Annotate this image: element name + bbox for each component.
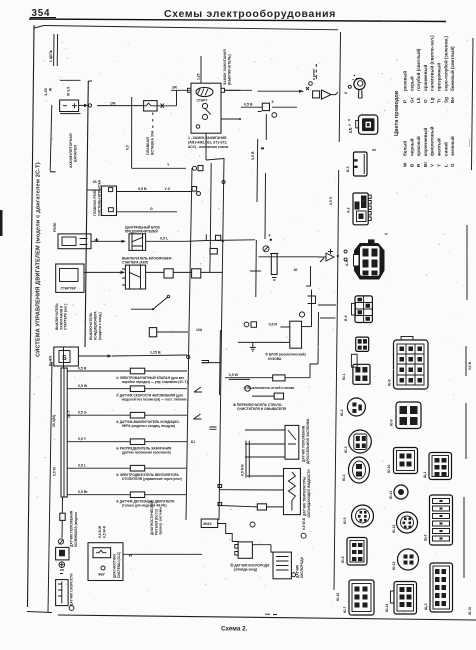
fuse drop vertical <box>131 97 133 168</box>
svg-text:⑧ Выключатель огней стоянки: ⑧ Выключатель огней стоянки <box>244 386 295 390</box>
wire K2 extension <box>187 240 207 243</box>
small bracket component on stub <box>308 296 316 304</box>
svg-text:Ю-13: Ю-13 <box>392 561 396 570</box>
wire switch out right <box>225 89 253 91</box>
svg-text:ВСТАВКА 30А: ВСТАВКА 30А <box>151 130 155 155</box>
ignition contact 1 <box>202 103 207 108</box>
connector R2 pin dots <box>440 500 443 540</box>
svg-text:6: 6 <box>269 234 271 238</box>
svg-text:0,5: 0,5 <box>126 145 130 150</box>
circled mark right <box>301 533 306 538</box>
svg-text:В-2: В-2 <box>349 127 353 133</box>
pin circle end of wires <box>197 192 201 196</box>
starter inner box <box>60 269 79 282</box>
wire ECT bottom <box>220 489 284 491</box>
plus mark <box>95 238 99 242</box>
connector P5 left ear <box>354 255 360 267</box>
svg-text:Ю-14: Ю-14 <box>385 603 389 612</box>
pin symbol circle-slash <box>263 246 269 252</box>
row1 wire left <box>67 370 130 372</box>
svg-text:W: W <box>129 553 133 558</box>
svg-text:2С-Т: 2С-Т <box>67 411 71 418</box>
wire into CN2 <box>241 106 262 108</box>
row3 wire left <box>67 414 130 416</box>
relay box K1 left (РЕЛЕ) <box>58 234 91 249</box>
connector R1 inner <box>432 456 449 477</box>
svg-text:Y: Y <box>167 163 170 167</box>
wire switch out lower right <box>221 118 240 120</box>
TPS box <box>285 425 299 459</box>
connector Q2 outer <box>396 402 421 429</box>
main relay pin top <box>109 188 113 192</box>
svg-text:ДРОССЕЛЬНОЙ ЗАСЛОНКИ: ДРОССЕЛЬНОЙ ЗАСЛОНКИ <box>306 418 310 464</box>
row5 fuse <box>130 465 144 471</box>
wire continue to bus <box>112 355 187 356</box>
ignition switch SW1 box <box>191 83 221 133</box>
ignition contact 2 <box>202 114 207 119</box>
right frame segment 2 <box>465 403 467 459</box>
connector circle left <box>244 322 249 327</box>
svg-text:0,5 B: 0,5 B <box>251 151 255 160</box>
arrow D2 circle <box>309 82 313 86</box>
svg-text:Б1: Б1 <box>191 440 195 444</box>
svg-text:ПЛАВКАЯ: ПЛАВКАЯ <box>146 137 150 155</box>
svg-text:коробки передач) — упр. клапан: коробки передач) — упр. клапаном (2С-Т) <box>122 380 188 384</box>
connector Q5 pins <box>403 518 412 529</box>
lower-left rows section <box>49 330 222 520</box>
svg-text:YжелтыйTrпрозрачный: YжелтыйTrпрозрачный <box>436 63 442 167</box>
svg-text:В-6: В-6 <box>344 315 348 321</box>
stub foot <box>306 285 311 287</box>
connector CN2 pin <box>272 113 277 118</box>
svg-text:Ю-9: Ю-9 <box>390 419 394 426</box>
key oval hatch <box>198 89 209 96</box>
svg-text:моделей без тахометра) — пост.: моделей без тахометра) — пост. питание <box>122 398 187 402</box>
svg-text:КОЛЕНВАЛА (модели: КОЛЕНВАЛА (модели <box>74 512 78 547</box>
svg-text:0,5 L: 0,5 L <box>78 464 87 468</box>
connector tick mid 2 <box>210 427 217 429</box>
connector P5 oval body <box>355 244 385 280</box>
svg-text:(ВЫКЛЮЧАТЕЛЬ): (ВЫКЛЮЧАТЕЛЬ) <box>227 54 231 85</box>
connector P10 pins <box>356 464 362 477</box>
connector P3 nub 2 <box>354 166 357 168</box>
connector P4 inner lower pin <box>359 214 364 220</box>
long wire from ECU <box>123 553 202 555</box>
svg-text:Ю-12: Ю-12 <box>392 524 396 533</box>
connector R3 pins <box>435 569 446 606</box>
svg-text:СТАРТЕР: СТАРТЕР <box>61 287 77 291</box>
slash in circle <box>264 247 268 251</box>
svg-text:VфиолетовыйLgсалатовый (светло: VфиолетовыйLgсалатовый (светло-зел.) <box>429 35 435 167</box>
connector P5 top tab <box>368 239 375 244</box>
horizontal short wire y363 <box>202 362 221 364</box>
connector strip X1 outer <box>61 368 67 497</box>
fusible link FL1 <box>144 101 158 111</box>
connector Q5 ring <box>397 512 418 533</box>
arrow head starter wire <box>121 271 126 274</box>
connector column B <box>385 337 428 615</box>
wire bus to fuse <box>97 105 143 107</box>
connector P4 inner arm <box>355 202 360 210</box>
mid-left section relays <box>53 97 225 340</box>
wire to mid bus <box>206 239 255 242</box>
РЕЛЕ inner mark <box>80 239 88 245</box>
double line pair <box>246 441 249 478</box>
connector P7 upper pins <box>358 339 367 350</box>
bus pin nub 2 <box>218 503 222 506</box>
connector symbol at bus B top <box>193 166 197 170</box>
connector P10 inner <box>353 461 366 479</box>
svg-text:Ю-4: Ю-4 <box>342 474 346 481</box>
ignition switch key oval <box>196 87 213 96</box>
svg-text:0,5 W: 0,5 W <box>78 384 88 388</box>
svg-text:ДАТЧИК СКОРОСТИ: ДАТЧИК СКОРОСТИ <box>70 573 74 606</box>
svg-text:20-3(М): 20-3(М) <box>52 415 56 427</box>
svg-text:BrкоричневыйOоранжевый: BrкоричневыйOоранжевый <box>422 65 428 167</box>
svg-text:0,5 B: 0,5 B <box>244 103 253 107</box>
circled 3 mark <box>250 522 255 527</box>
connector P11 inner ring <box>356 509 370 523</box>
circle arrow mark <box>58 539 63 544</box>
ECU inner squiggle <box>96 550 107 553</box>
pin square on bus B <box>216 235 221 240</box>
S symbol inside <box>59 351 70 363</box>
circled arrow mark <box>299 312 304 317</box>
lambda pin circle <box>292 573 296 577</box>
svg-text:СИСТЕМЫ (DLC): СИСТЕМЫ (DLC) <box>117 552 121 578</box>
connector P5 pins col2 <box>372 249 378 276</box>
svg-text:1,25: 1,25 <box>197 73 201 80</box>
connector column C <box>423 453 453 613</box>
small box sensor S5 <box>56 547 69 560</box>
relay K3 pins left <box>122 269 125 285</box>
arrow D2 head <box>322 90 332 99</box>
scan artifact left edge <box>0 210 3 236</box>
switch on mid column 2 <box>194 414 202 419</box>
connector P1 dots above <box>353 76 358 80</box>
circled 12 below <box>69 606 74 611</box>
main relay pin bottom <box>109 208 114 212</box>
svg-text:(АМ1-АМ2, IG1, ST1-ST2,: (АМ1-АМ2, IG1, ST1-ST2, <box>188 141 227 145</box>
small box on drop wire <box>210 249 217 255</box>
connector P3 nub 1 <box>354 159 357 161</box>
connector P5 label circles <box>344 250 347 261</box>
connector P11 pin dots <box>358 511 367 522</box>
svg-text:0,5 B: 0,5 B <box>138 187 147 191</box>
svg-text:НЕРА (модели с кондиц. воздуха: НЕРА (модели с кондиц. воздуха) <box>122 424 175 428</box>
svg-text:(датчик положения коленвала): (датчик положения коленвала) <box>122 451 171 455</box>
wire into FB1 lower <box>238 341 290 343</box>
resistor box tall <box>56 580 69 606</box>
svg-text:Щ-3: Щ-3 <box>424 603 428 610</box>
svg-text:Схемы электрооборудования: Схемы электрооборудования <box>164 8 336 20</box>
relay K2 coil pins <box>132 234 143 251</box>
connector P4 inner block top <box>361 196 367 209</box>
drop continues <box>61 520 63 538</box>
junction circle bus B <box>187 355 190 358</box>
switch pivot dot <box>152 308 154 310</box>
wire from small box <box>157 331 188 333</box>
svg-text:БАТАРЕЯ: БАТАРЕЯ <box>74 145 78 162</box>
connector P1 tail <box>358 90 362 98</box>
svg-text:1W: 1W <box>110 101 116 105</box>
row5 wire right <box>145 467 187 469</box>
ECU pin circle <box>101 566 105 570</box>
svg-text:Ю-11: Ю-11 <box>389 491 393 499</box>
row6 wire right <box>145 494 186 496</box>
svg-text:ЭБУ: ЭБУ <box>98 573 106 577</box>
svg-text:ОЧИСТИТЕЛЯ И ОМЫВАТЕЛЯ: ОЧИСТИТЕЛЯ И ОМЫВАТЕЛЯ <box>237 407 287 411</box>
svg-text:BчерныйGrсерый: BчерныйGrсерый <box>408 76 414 167</box>
battery B1 box <box>60 100 79 112</box>
svg-text:Щ-1: Щ-1 <box>423 471 427 478</box>
S-box switch <box>54 347 79 366</box>
svg-text:0,5 R: 0,5 R <box>78 366 87 370</box>
svg-text:0,5 R-B: 0,5 R-B <box>241 464 245 476</box>
wire at separator 2 <box>320 317 336 319</box>
svg-text:0,5 W-R: 0,5 W-R <box>103 525 107 538</box>
connector P8 inner pins <box>352 403 362 414</box>
right-middle section <box>196 196 339 517</box>
capacitor C1 top bar <box>270 253 278 255</box>
legend: wire colours <box>394 35 471 167</box>
connector Q4 ring <box>394 485 408 499</box>
svg-text:8: 8 <box>344 92 348 94</box>
wire row stop lamps <box>225 377 273 379</box>
bus A top tick <box>88 80 92 82</box>
ECU inner box <box>93 548 111 558</box>
svg-text:10А: 10А <box>196 328 203 332</box>
mid vertical bus lower <box>255 240 257 297</box>
right area wire A <box>229 378 250 380</box>
row6 wire left <box>67 494 130 496</box>
svg-text:2R: 2R <box>172 86 177 90</box>
arrow D2 square <box>313 91 320 98</box>
svg-text:АККУМУЛЯТОРНАЯ: АККУМУЛЯТОРНАЯ <box>69 133 73 168</box>
inline connector CN4 <box>192 269 201 278</box>
svg-text:провер. системы: провер. системы <box>159 507 163 535</box>
ignition contact mark <box>196 125 200 129</box>
connector P8 ring <box>347 398 365 416</box>
svg-text:СТАРТЕРА (авт.): СТАРТЕРА (авт.) <box>64 304 68 330</box>
TPS wiper arm <box>288 430 296 444</box>
drop wire from ignition <box>205 133 207 160</box>
svg-text:ЗНАК: ЗНАК <box>203 522 212 526</box>
connector P13 outer <box>349 580 374 615</box>
connector P2 center hole <box>366 122 372 128</box>
connector P1 pin dot <box>348 85 351 88</box>
diode slash <box>320 258 324 262</box>
bus cross tick <box>250 270 261 272</box>
connector Q1 top notch <box>401 337 413 341</box>
connector P7 lower pins <box>355 367 367 381</box>
arrowhead mid wire <box>299 90 304 93</box>
svg-text:LсинийSgсеро-голубой (зеленов.: LсинийSgсеро-голубой (зеленов.) <box>442 36 448 167</box>
connector Q6 ring <box>398 549 419 570</box>
node stub second line <box>56 34 58 66</box>
connector square at bus B top <box>198 166 203 171</box>
svg-text:Ж 0,5: Ж 0,5 <box>67 87 71 97</box>
bottom rule <box>58 615 476 620</box>
check connector pin tab 2 <box>235 552 238 556</box>
connector strip inner line <box>63 368 65 497</box>
switch blade SW3 <box>131 297 168 309</box>
svg-text:КИСЛОРОДА: КИСЛОРОДА <box>300 556 304 578</box>
vert stub above fuse block <box>311 290 313 327</box>
ignition pin squares left <box>188 88 192 92</box>
separator middle segment <box>337 170 340 254</box>
ECU outer box <box>88 543 123 581</box>
svg-text:Ю-5: Ю-5 <box>343 517 347 524</box>
svg-text:Ю-3: Ю-3 <box>344 446 348 453</box>
fuse wiper <box>274 393 283 399</box>
battery polarity marks <box>63 103 77 108</box>
connector P3 outer <box>354 152 368 176</box>
starter M1 outer box <box>56 264 84 292</box>
drop from CN2 <box>265 114 267 140</box>
arrow D2 tick right <box>332 92 339 95</box>
connector column A <box>344 76 388 323</box>
node stub top-left <box>53 34 55 66</box>
small box ЗНАК <box>201 519 218 528</box>
wire after fuse <box>285 377 310 379</box>
arrow tick <box>59 540 63 545</box>
relay K2 contact <box>132 237 143 246</box>
top-right arrow section <box>225 64 339 104</box>
main relay wire right top <box>117 191 171 193</box>
svg-text:0,5 W: 0,5 W <box>53 466 57 476</box>
small box SW3 right <box>149 328 156 337</box>
main bus A vertical <box>85 81 88 347</box>
arrow head <box>122 240 127 243</box>
svg-text:1 - ЗАМОК ЗАЖИГАНИЯ: 1 - ЗАМОК ЗАЖИГАНИЯ <box>188 136 227 140</box>
row4 fuse <box>130 439 144 445</box>
wire S-box right <box>78 355 110 357</box>
svg-text:В-3: В-3 <box>346 166 350 172</box>
starter wire to K3 <box>84 271 123 273</box>
connector P12 pins <box>352 543 363 561</box>
svg-text:КОНДИЦИОНЕРА: КОНДИЦИОНЕРА <box>94 311 98 340</box>
connector P13 inner <box>352 584 371 612</box>
connector Q6 inner pins <box>404 555 414 565</box>
РЕЛЕ inner box <box>62 237 76 246</box>
mid-top connector subsection <box>187 103 339 297</box>
ground G1 <box>250 342 256 351</box>
ignition contact arm <box>205 109 211 115</box>
mid vertical bus upper <box>256 139 259 202</box>
svg-text:ПРЕДОХРАНИТЕЛЕЙ: ПРЕДОХРАНИТЕЛЕЙ <box>125 230 158 234</box>
check connector box <box>238 542 252 558</box>
svg-text:0,5 W: 0,5 W <box>229 373 239 377</box>
small dash upper right <box>385 233 388 235</box>
bus pin nub 1 <box>218 485 222 488</box>
connector P6 dark cells <box>358 298 371 321</box>
arrow РЕЛЕ to K2 <box>91 240 124 242</box>
ECT resistor squiggle <box>288 472 295 511</box>
tall box fusebox FB1 <box>290 321 302 348</box>
connector P7 side tab <box>351 354 357 367</box>
wire stub from ignition <box>225 89 241 91</box>
svg-text:Ю-7: Ю-7 <box>343 606 347 613</box>
circled number right <box>245 386 251 392</box>
connector Q3 inner <box>397 451 415 471</box>
right separator line upper <box>339 32 340 142</box>
connector P6 grid <box>356 297 373 323</box>
svg-text:к реле: к реле <box>312 69 316 80</box>
connector P5 inner frame <box>360 246 380 276</box>
svg-text:Ю-16: Ю-16 <box>468 607 472 615</box>
wire into switch <box>171 89 191 91</box>
bus C lower <box>219 330 222 520</box>
CN2 tick <box>258 111 262 113</box>
svg-text:СИСТЕМЫ ВПРЫСКА: СИСТЕМЫ ВПРЫСКА <box>97 179 101 216</box>
connector P4 comb teeth <box>368 195 371 220</box>
fusible link element <box>143 103 157 106</box>
inline connector CN3 <box>164 269 173 278</box>
lambda sensor box <box>273 552 291 579</box>
check connector pin tab 1 <box>235 545 238 549</box>
svg-text:0,5 L: 0,5 L <box>160 237 169 241</box>
connector P2 inner dark <box>362 118 375 131</box>
connector Q1 outer <box>394 340 429 389</box>
connector R1 outer <box>429 453 452 480</box>
row6 fuse <box>130 492 144 498</box>
svg-text:ОХЛАЖДАЮЩЕЙ ЖИДКОСТИ: ОХЛАЖДАЮЩЕЙ ЖИДКОСТИ <box>307 469 311 518</box>
connector P2 outer <box>359 115 378 134</box>
connector R3 inner <box>433 566 450 609</box>
svg-text:0,5 Y: 0,5 Y <box>78 437 87 441</box>
connector R1 pins <box>435 458 447 477</box>
left stub thick <box>50 171 56 173</box>
wire top bus to arrow <box>258 90 304 92</box>
bottom rule left stub <box>27 612 52 613</box>
svg-text:Ю-15: Ю-15 <box>336 593 340 601</box>
wire to D3 <box>258 256 318 258</box>
wire CN4 to bus <box>201 271 222 273</box>
connector R3 outer <box>430 563 453 612</box>
top-left section <box>43 34 252 347</box>
pin circles at bus <box>88 104 91 107</box>
svg-text:Ю-1: Ю-1 <box>342 373 346 380</box>
row3 fuse <box>130 412 144 418</box>
svg-text:1,25Ж: 1,25Ж <box>43 87 53 96</box>
svg-text:GзеленыйBeбежевый (светлый): GзеленыйBeбежевый (светлый) <box>449 46 455 167</box>
svg-text:СТАРТЕРА (АКП): СТАРТЕРА (АКП) <box>122 261 148 265</box>
connector P2 side lug left <box>356 121 359 128</box>
wire TPS bottom <box>245 456 285 458</box>
svg-text:А-2: А-2 <box>347 207 351 213</box>
row2 wire left <box>67 388 130 390</box>
drop below strip <box>61 497 63 513</box>
connector Q3 outer <box>394 448 418 474</box>
connector P7 upper part <box>356 337 369 351</box>
wire K3 right <box>146 271 164 273</box>
connector P9 pins <box>356 436 366 448</box>
connector Q1 grid lines <box>397 344 424 385</box>
svg-text:Ю-10: Ю-10 <box>387 464 391 473</box>
wire TPS top <box>245 429 285 431</box>
circled cross below S5 <box>59 562 65 568</box>
main relay U1 tall box <box>102 186 117 216</box>
capacitor top circle <box>270 239 272 241</box>
svg-text:0,5 G: 0,5 G <box>78 411 87 415</box>
row4 wire left <box>67 441 130 443</box>
junction on sep line <box>337 255 339 257</box>
wire at separator 1 <box>318 304 336 306</box>
arrow head S wire <box>108 354 113 357</box>
wire CN3 to CN4 <box>173 271 191 273</box>
connector P6 left block <box>352 303 356 315</box>
